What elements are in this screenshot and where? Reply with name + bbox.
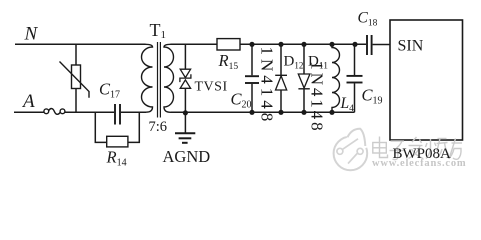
svg-text:A: A (21, 91, 35, 112)
transformer T1 (141, 20, 173, 135)
wire N line (15, 43, 146, 45)
watermark hanzi char 2 (390, 141, 406, 160)
svg-text:TVSI: TVSI (195, 80, 228, 95)
svg-text:1N4148: 1N4148 (308, 61, 327, 133)
capacitor C17 (series in A line) (99, 80, 120, 125)
junction TVS/ground (183, 110, 188, 115)
transformer T1 secondary winding (164, 44, 174, 112)
chip U1 box (390, 20, 463, 140)
resistor R15 (217, 39, 240, 72)
svg-text:7:6: 7:6 (149, 119, 168, 135)
tvs diode TVSI (180, 44, 228, 113)
capacitor C18 (358, 10, 391, 56)
junction dots bottom rail (249, 110, 334, 115)
transformer T1 primary winding (141, 44, 152, 112)
watermark hanzi char 1 (373, 137, 388, 158)
inductor L4 (332, 44, 354, 114)
svg-text:R15: R15 (218, 51, 239, 72)
watermark logo circle (334, 129, 370, 171)
varistor RV (60, 44, 90, 112)
resistor R14 (bypass loop) (95, 112, 139, 168)
wire secondary bottom rail (171, 111, 355, 113)
diode D11 (298, 44, 328, 112)
wire A line middle segment (65, 111, 114, 113)
ground AGND (163, 113, 211, 166)
transformer T1 core (157, 42, 159, 118)
svg-text:N: N (24, 24, 39, 45)
diode D12 (275, 44, 303, 112)
svg-text:C17: C17 (99, 80, 120, 101)
svg-text:BWP08A: BWP08A (393, 146, 452, 162)
capacitor C19 (347, 44, 383, 112)
svg-text:T1: T1 (150, 20, 167, 41)
svg-text:D12: D12 (284, 54, 304, 71)
watermark hanzi char 5 (449, 139, 463, 160)
svg-text:C18: C18 (358, 10, 378, 29)
watermark hanzi char 3 (409, 137, 424, 159)
wire A line right segment (121, 111, 146, 113)
capacitor C20 (231, 44, 260, 112)
svg-text:SIN: SIN (398, 38, 424, 55)
svg-text:C20: C20 (231, 90, 252, 111)
fuse FU1 (44, 109, 65, 115)
svg-text:R14: R14 (106, 148, 127, 169)
svg-text:1N4148: 1N4148 (258, 47, 277, 126)
svg-text:L4: L4 (340, 95, 355, 114)
junction dots top rail (249, 42, 357, 47)
watermark hanzi char 4 (426, 139, 449, 159)
svg-text:AGND: AGND (163, 147, 211, 166)
wire A line left segment (14, 111, 44, 113)
wire secondary top to R15 (171, 43, 218, 45)
wire R15 to C18 (top rail) (240, 43, 366, 45)
svg-text:C19: C19 (362, 86, 383, 107)
